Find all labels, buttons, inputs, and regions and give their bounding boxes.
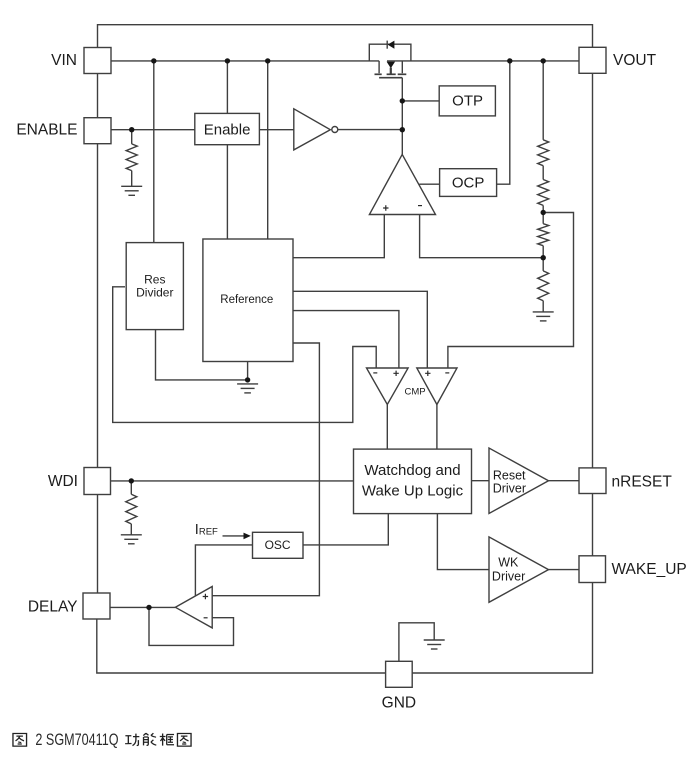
- wire WDI pin to Watchdog: [111, 480, 354, 482]
- wire CMP2 output to Watchdog: [436, 405, 438, 450]
- wire top bypass VIN to VOUT: [98, 25, 593, 48]
- wire GND pin to ground symbol: [399, 623, 434, 662]
- wire Reference bottom to ground node: [247, 362, 249, 380]
- svg-text:Reference: Reference: [220, 294, 273, 306]
- inverter U2: [294, 109, 338, 150]
- wire VIN rail: [111, 60, 379, 62]
- block OSC: [253, 532, 304, 558]
- caption CJK glyph gong: [125, 734, 139, 746]
- wire tap1 to CMP2 minus input: [448, 213, 574, 369]
- wire left rail VIN to ENABLE: [97, 74, 99, 118]
- svg-text:ENABLE: ENABLE: [16, 121, 77, 138]
- caption CJK glyph tu1: [13, 733, 27, 746]
- svg-text:OSC: OSC: [265, 538, 291, 552]
- block OCP: [440, 169, 497, 197]
- wire right rail WAKE_UP to nRESET: [592, 494, 594, 556]
- svg-text:2 SGM70411Q: 2 SGM70411Q: [35, 732, 118, 750]
- node Reference ground: [245, 377, 250, 382]
- wire right rail nRESET to VOUT: [592, 73, 594, 468]
- resistor R1 ENABLE pull-down: [126, 130, 137, 186]
- svg-text:WK: WK: [498, 556, 519, 570]
- ground at GND pin: [424, 640, 445, 649]
- pin marker minus CMP1: [373, 372, 377, 374]
- svg-text:Wake Up Logic: Wake Up Logic: [362, 482, 464, 499]
- pin GND: [386, 661, 413, 687]
- pin VOUT: [579, 47, 606, 73]
- wire Reference to CMP2 plus input: [293, 291, 427, 368]
- wire VIN rail drop to Enable block: [226, 61, 228, 114]
- svg-text:OTP: OTP: [452, 92, 483, 109]
- wire R5 to ground: [542, 301, 544, 312]
- resistor R5: [538, 271, 549, 301]
- svg-text:Watchdog and: Watchdog and: [364, 462, 460, 479]
- buffer Reset Driver: [489, 448, 549, 514]
- svg-text:nRESET: nRESET: [612, 473, 673, 490]
- caption CJK glyph kuang: [160, 733, 174, 745]
- wire Res Divider left output to CMP1 minus input: [113, 287, 377, 423]
- block Reference: [203, 239, 293, 362]
- wire Enable block to inverter U2: [259, 129, 293, 131]
- node junction rail / divider: [541, 58, 546, 63]
- wire body-diode loop: [369, 44, 411, 61]
- arrow IREF into OSC: [223, 533, 251, 540]
- wire ENABLE pin to Enable block: [111, 129, 195, 131]
- pin marker minus CMP2: [445, 372, 449, 374]
- resistor R4: [538, 224, 549, 246]
- node junction ENABLE / R1: [129, 127, 134, 132]
- wire CMP1 output to Watchdog: [386, 405, 388, 450]
- wire error amp to OCP: [419, 183, 439, 185]
- wire Reference to delay comparator plus input: [212, 343, 319, 596]
- wire feedback DELAY node to A2 minus input: [149, 607, 234, 645]
- node tap2 divider: [541, 255, 546, 260]
- wire R3 to R4 through tap1: [542, 205, 544, 223]
- wire R4 to R5 through tap2: [542, 246, 544, 271]
- node junction VIN rail / Res Divider: [151, 58, 156, 63]
- wire bottom rail GND to right rail: [412, 583, 592, 674]
- node junction gate / OTP: [400, 98, 405, 103]
- pin marker plus CMP2: [425, 371, 430, 376]
- pin marker minus A1: [418, 205, 422, 207]
- svg-text:OCP: OCP: [452, 174, 485, 191]
- pin marker plus A1: [383, 205, 388, 210]
- buffer WK Driver: [489, 537, 549, 602]
- wire error amp - input from divider tap2: [420, 215, 544, 258]
- pin marker plus CMP1: [393, 371, 398, 376]
- svg-text:CMP: CMP: [405, 386, 426, 397]
- wire VOUT rail to divider: [542, 61, 544, 140]
- pin WDI: [84, 468, 111, 495]
- wire gate node to OTP: [402, 100, 439, 102]
- wire VIN rail drop to Res Divider: [153, 61, 155, 243]
- wire Watchdog to Reset Driver: [472, 480, 490, 482]
- wire error amp + input from Reference: [293, 215, 384, 258]
- svg-text:VOUT: VOUT: [613, 52, 657, 69]
- node junction VIN rail / Enable: [225, 58, 230, 63]
- wire OSC output to Watchdog: [303, 514, 388, 545]
- block Enable: [195, 113, 260, 144]
- wire rail right of pass FET to VOUT: [387, 60, 579, 62]
- wire Reference to CMP1 plus input: [293, 311, 399, 368]
- resistor R3: [538, 180, 549, 206]
- pin VIN: [84, 48, 111, 74]
- resistor R6 WDI pull-down: [126, 481, 137, 535]
- node junction VIN rail / Reference: [265, 58, 270, 63]
- svg-text:IREF: IREF: [195, 522, 218, 538]
- pin nRESET: [579, 468, 606, 494]
- caption CJK glyph tu2: [177, 733, 191, 746]
- node junction rail / OCP: [507, 58, 512, 63]
- wire inverter output to gate node: [338, 129, 402, 131]
- wire VIN rail drop to Reference: [267, 61, 269, 239]
- wire left rail DELAY to bottom rail and GND pin: [97, 619, 386, 673]
- wire Res Divider bottom to ground node: [156, 330, 248, 380]
- diode D1 body diode: [387, 41, 394, 49]
- svg-text:Enable: Enable: [204, 121, 251, 138]
- block Watchdog and Wake Up Logic: [354, 449, 472, 513]
- svg-text:Divider: Divider: [136, 286, 173, 300]
- pin DELAY: [83, 593, 110, 619]
- svg-text:GND: GND: [382, 695, 416, 712]
- comparator CMP2: [417, 368, 457, 405]
- node junction WDI / R6: [129, 478, 134, 483]
- ground for R1: [121, 186, 142, 195]
- node junction DELAY / A2: [146, 605, 151, 610]
- svg-text:Res: Res: [144, 272, 165, 286]
- transistor Q1 PMOS pass FET: [375, 61, 407, 78]
- pin marker plus A2: [203, 594, 208, 599]
- node junction gate / inverter: [400, 127, 405, 132]
- ground for Reference node: [237, 384, 258, 393]
- caption CJK glyph neng: [143, 733, 156, 745]
- block Res Divider: [126, 243, 183, 330]
- block OTP: [439, 86, 495, 116]
- svg-text:DELAY: DELAY: [28, 598, 78, 615]
- ground for divider: [533, 312, 554, 321]
- op-amp A1 error amplifier: [369, 154, 435, 214]
- wire Reset Driver to nRESET pin: [549, 480, 580, 482]
- comparator CMP1: [367, 368, 409, 405]
- wire left rail ENABLE to WDI: [97, 144, 99, 468]
- wire Enable block to Reference: [226, 145, 228, 239]
- wire OSC left to delay comparator: [195, 545, 252, 596]
- svg-text:VIN: VIN: [51, 52, 77, 69]
- op-amp A2 delay comparator: [175, 587, 212, 628]
- svg-text:WAKE_UP: WAKE_UP: [612, 561, 687, 578]
- pin WAKE_UP: [579, 556, 606, 583]
- ground for R6: [121, 535, 142, 544]
- node tap1 divider: [541, 210, 546, 215]
- resistor R2: [538, 140, 549, 166]
- wire OCP to VIN rail: [497, 61, 510, 184]
- wire WK Driver to WAKE_UP pin: [549, 569, 580, 571]
- svg-text:Reset: Reset: [493, 469, 526, 483]
- svg-text:Driver: Driver: [493, 482, 526, 496]
- wire R2 to R3: [542, 166, 544, 180]
- svg-text:WDI: WDI: [48, 473, 78, 490]
- wire gate node vertical: [401, 78, 403, 155]
- wire Watchdog to WK Driver: [437, 514, 489, 570]
- pin ENABLE: [84, 118, 111, 144]
- pin marker minus A2: [204, 617, 208, 619]
- wire left rail WDI to DELAY: [97, 495, 99, 594]
- wire DELAY pin to comparator A2: [110, 606, 175, 608]
- svg-text:Driver: Driver: [492, 569, 525, 583]
